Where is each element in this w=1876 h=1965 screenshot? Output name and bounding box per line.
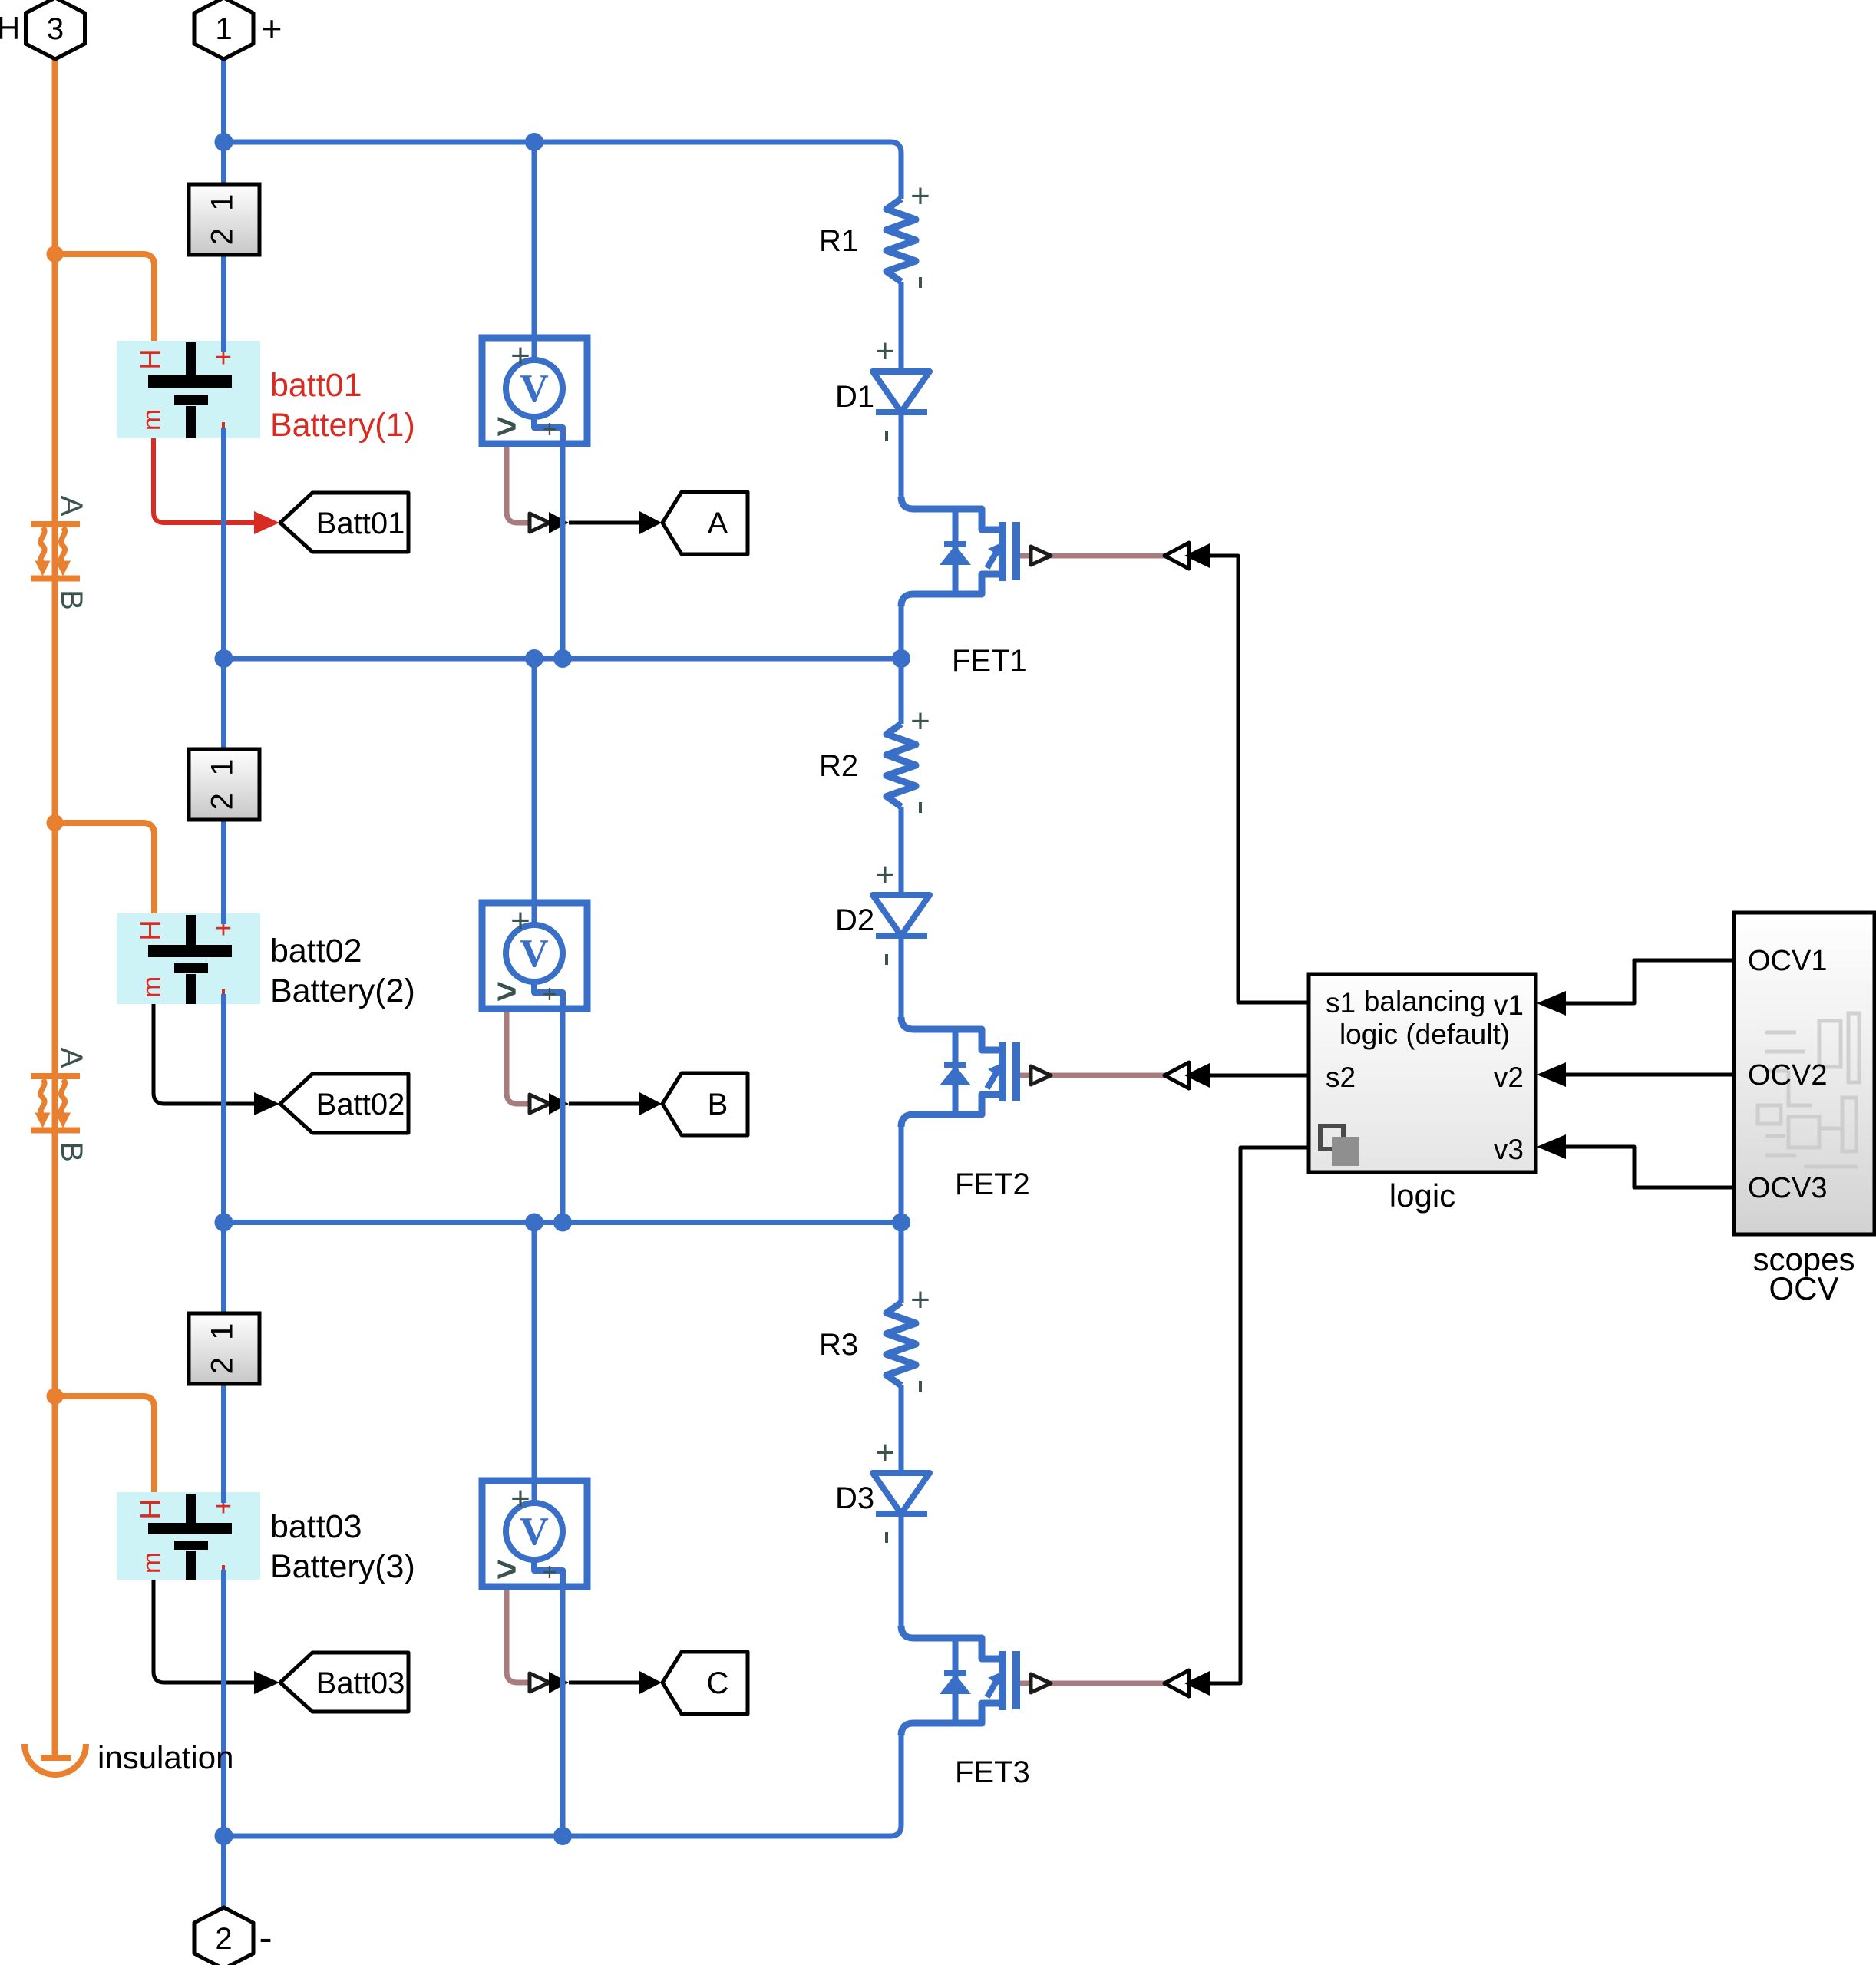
wire sensor feed 3 [532, 1223, 537, 1504]
svg-text:m: m [137, 976, 167, 998]
transistor FET1 source wire [901, 574, 999, 606]
transistor FET3 gate bar [1012, 1651, 1020, 1709]
voltage sensor V3 circle [506, 1503, 563, 1560]
tag B [662, 1073, 748, 1135]
wire R3 to D3 [899, 1385, 904, 1473]
junction rail3/sensor2 out [553, 1214, 572, 1232]
wire sensor 2 output to rail 3 [560, 1009, 566, 1223]
svg-text:B: B [54, 1141, 88, 1162]
svg-text:A: A [54, 496, 88, 517]
junction bus/rail3 [215, 1214, 233, 1232]
arrowhead after converter row A [549, 512, 569, 533]
svg-text:+: + [875, 1434, 895, 1471]
orange junction battery 3 [47, 1388, 64, 1405]
svg-text:v3: v3 [1494, 1134, 1524, 1165]
svg-text:2 1: 2 1 [206, 759, 239, 811]
svg-text:Battery(2): Battery(2) [270, 973, 415, 1009]
svg-text:A: A [54, 1048, 88, 1068]
wire battery2 m to Batt02 tag [154, 1004, 254, 1104]
wire rail 2 [224, 656, 902, 662]
svg-text:+: + [510, 1480, 530, 1518]
svg-text:logic (default): logic (default) [1339, 1019, 1510, 1050]
transistor FET2 channel bar [999, 1042, 1006, 1101]
svg-text:H: H [135, 1498, 167, 1519]
tag Batt03 [280, 1653, 408, 1712]
scope watermark [1758, 1013, 1859, 1167]
svg-text:2: 2 [215, 1922, 232, 1956]
svg-text:+: + [262, 8, 282, 48]
junction bus/rail2 [215, 649, 233, 668]
converter icon row A [530, 514, 550, 532]
battery batt01 block [117, 341, 260, 438]
hollow port triangle FET2 gate [1164, 1062, 1189, 1088]
svg-text:+: + [510, 337, 530, 375]
wire sensor feed 1 [532, 142, 537, 361]
arrowhead into FET1 gate [1184, 543, 1210, 568]
svg-text:v2: v2 [1494, 1062, 1524, 1093]
svg-text:logic: logic [1389, 1177, 1455, 1214]
arrowhead into B tag [639, 1092, 662, 1115]
wire FET1 source to rail 2 [899, 606, 904, 659]
battery batt01 plates symbol [148, 342, 232, 438]
svg-text:A: A [708, 507, 728, 540]
tag A [662, 492, 748, 554]
svg-text:FET1: FET1 [952, 644, 1027, 678]
svg-text:+: + [910, 702, 930, 740]
svg-text:batt01: batt01 [270, 367, 362, 404]
diode D2 [873, 895, 930, 936]
svg-text:Batt03: Batt03 [316, 1666, 405, 1700]
battery batt01 pin label - [222, 422, 225, 430]
svg-text:+: + [543, 980, 557, 1008]
transistor FET1 channel bar [999, 522, 1006, 581]
arrowhead into C tag [639, 1671, 662, 1694]
svg-text:R2: R2 [819, 749, 858, 783]
svg-text:B: B [708, 1088, 728, 1121]
voltage sensor V3 box [482, 1481, 587, 1587]
connection block 2 1 (#1) [189, 184, 259, 255]
svg-text:H: H [135, 920, 167, 940]
transistor FET1 channel arrow [987, 550, 998, 568]
resistor R2 [887, 724, 916, 807]
wire sensor 3 output to rail 4 [560, 1587, 566, 1836]
svg-text:Battery(1): Battery(1) [270, 407, 415, 444]
svg-text:>: > [497, 406, 517, 446]
wire logic s1 to FET1 gate [1210, 556, 1307, 1002]
voltage sensor V3 internal output wire [534, 1560, 563, 1587]
wire OCV1 to v1 [1566, 960, 1734, 1003]
thermal element #2 wavy conductor [61, 1079, 64, 1115]
svg-text:OCV: OCV [1769, 1270, 1838, 1306]
arrowhead into Batt03 tag [254, 1671, 279, 1694]
connection block 2 1 (#2) [189, 749, 259, 820]
wire rail 3 [224, 1220, 902, 1225]
transistor FET3 body diode [944, 1670, 966, 1676]
wire FET3 gate (mauve) [1019, 1681, 1166, 1686]
svg-text:D1: D1 [835, 380, 874, 414]
svg-text:+: + [875, 856, 895, 893]
junction rail2/FET1-R2 [892, 649, 910, 668]
svg-text:m: m [137, 409, 167, 431]
converter icon row C [530, 1673, 550, 1692]
transistor FET2 body diode [944, 1062, 966, 1068]
svg-text:m: m [137, 1552, 167, 1574]
svg-text:Batt02: Batt02 [316, 1088, 405, 1121]
svg-text:C: C [707, 1666, 729, 1700]
arrowhead after converter row C [549, 1672, 569, 1693]
svg-text:insulation: insulation [97, 1739, 233, 1775]
wire FET1 gate (mauve) [1019, 553, 1166, 559]
svg-text:H: H [0, 10, 20, 46]
voltage sensor V1 circle [506, 360, 563, 417]
svg-text:Battery(3): Battery(3) [270, 1548, 415, 1585]
svg-text:Batt01: Batt01 [316, 507, 405, 540]
svg-text:balancing: balancing [1364, 986, 1485, 1017]
wire OCV2 to v2 [1566, 1073, 1734, 1077]
tag Batt01 [280, 493, 408, 552]
junction rail1/sensor1 [525, 133, 543, 151]
junction rail2/sensor1 out [553, 649, 572, 668]
scopes OCV block [1734, 913, 1874, 1234]
wire sensor output row B (mauve) [507, 1009, 530, 1104]
thermal element #2 top bar [31, 1073, 80, 1079]
wire orange branch to battery 3 H [55, 1396, 155, 1492]
diode D2 polarity - [885, 954, 888, 965]
transistor FET1 body branch [953, 509, 959, 594]
svg-text:FET3: FET3 [955, 1755, 1030, 1789]
arrowhead into Batt02 tag [254, 1092, 279, 1115]
battery batt02 block [117, 913, 260, 1004]
svg-text:s2: s2 [1326, 1062, 1356, 1093]
transistor FET3 body branch [953, 1638, 959, 1723]
wire D3 to FET3 [899, 1514, 904, 1626]
transistor FET3 channel arrow [987, 1679, 998, 1697]
port 1 hexagon [194, 0, 253, 59]
junction rail4/sensor3 out [553, 1827, 572, 1845]
logic block subsystem icon [1320, 1126, 1343, 1149]
wire R1 to D1 [899, 282, 904, 372]
diode D3 polarity - [885, 1532, 888, 1543]
wire sensor output row C (mauve) [507, 1587, 530, 1683]
transistor FET3 source wire [901, 1703, 999, 1735]
wire FET2 source to rail 3 [899, 1127, 904, 1223]
wire main bus from port 1 down to port 2 [221, 59, 226, 1907]
voltage sensor V2 box [482, 903, 587, 1009]
arrowhead into v3 [1537, 1134, 1566, 1159]
wire sensor output row A (mauve) [507, 444, 530, 523]
svg-text:+: + [543, 415, 557, 443]
junction bus/rail4 [215, 1827, 233, 1845]
junction bus/rail1 [215, 133, 233, 151]
battery batt02 pin label - [222, 989, 225, 997]
blue stub battery1 - [221, 428, 226, 438]
svg-text:1: 1 [215, 12, 232, 46]
wire FET2 gate (mauve) [1019, 1073, 1166, 1078]
arrowhead into FET3 gate [1184, 1671, 1210, 1696]
transistor FET2 gate bar [1012, 1042, 1020, 1101]
svg-text:+: + [910, 177, 930, 215]
svg-text:v1: v1 [1494, 989, 1524, 1021]
svg-text:2 1: 2 1 [206, 1323, 239, 1375]
diode D3 [873, 1473, 930, 1514]
converter icon FET1 gate [1031, 547, 1051, 565]
svg-text:R1: R1 [819, 224, 858, 258]
svg-text:OCV1: OCV1 [1748, 945, 1827, 977]
resistor R3 [887, 1303, 916, 1385]
orange junction battery 1 [47, 246, 64, 263]
wire orange branch to battery 1 H [55, 254, 155, 341]
svg-text:2 1: 2 1 [206, 194, 239, 246]
wire rail 4 (bottom) from FET3 source to bus [224, 1735, 902, 1836]
resistor R2 polarity - [919, 802, 922, 813]
svg-text:B: B [54, 589, 88, 610]
wire orange thermal bus from port 3 [52, 59, 58, 1758]
thermal element #1 wavy conductor [41, 527, 45, 563]
svg-text:D2: D2 [835, 903, 874, 937]
port 2 hexagon [194, 1907, 253, 1965]
arrowhead into FET2 gate [1184, 1063, 1210, 1088]
wire to B tag [569, 1102, 639, 1106]
transistor FET2 channel arrow [987, 1070, 998, 1088]
wire sensor 1 output to rail 2 [560, 444, 566, 659]
svg-text:FET2: FET2 [955, 1167, 1030, 1201]
voltage sensor V2 circle [506, 925, 563, 982]
wire battery1 m to Batt01 tag (red) [154, 438, 254, 523]
svg-text:3: 3 [47, 12, 64, 46]
thermal element #1 wavy conductor [61, 527, 64, 563]
wire to C tag [569, 1681, 639, 1685]
converter icon FET3 gate [1031, 1674, 1051, 1693]
port 3 hexagon [26, 0, 85, 59]
wire D2 to FET2 [899, 936, 904, 1017]
arrowhead after converter row B [549, 1093, 569, 1115]
converter icon row B [530, 1095, 550, 1113]
resistor R1 polarity - [919, 277, 922, 288]
transistor FET1 drain wire [901, 497, 999, 530]
arrowhead into v1 [1537, 991, 1566, 1016]
voltage sensor V1 box [482, 338, 587, 444]
transistor FET2 drain wire [901, 1017, 999, 1050]
junction rail2/sensor2 feed [525, 649, 543, 668]
battery batt03 block [117, 1492, 260, 1580]
svg-text:+: + [875, 332, 895, 370]
converter icon FET2 gate [1031, 1066, 1051, 1085]
wire R2 to D2 [899, 807, 904, 895]
svg-text:D3: D3 [835, 1481, 874, 1515]
transistor FET2 body branch [953, 1029, 959, 1115]
balancing logic block [1309, 974, 1536, 1172]
ground insulation symbol [41, 1755, 71, 1761]
battery batt02 plates symbol [148, 915, 232, 1004]
svg-text:OCV2: OCV2 [1748, 1059, 1827, 1091]
svg-text:OCV3: OCV3 [1748, 1172, 1827, 1204]
wire logic s3 to FET3 gate [1210, 1148, 1307, 1683]
junction rail3/FET2-R3 [892, 1214, 910, 1232]
orange junction battery 2 [47, 814, 64, 831]
voltage sensor V2 internal output wire [534, 982, 563, 1009]
transistor FET1 gate bar [1012, 522, 1020, 580]
voltage sensor V1 internal output wire [534, 417, 563, 444]
transistor FET1 body diode [944, 541, 966, 547]
wire orange branch to battery 2 H [55, 823, 155, 913]
arrowhead into Batt01 tag [254, 511, 279, 534]
resistor R3 polarity - [919, 1381, 922, 1392]
connection block 2 1 (#3) [189, 1313, 259, 1384]
wire rail 2 to R2 [899, 659, 904, 724]
svg-text:H: H [135, 348, 167, 369]
battery batt03 pin label - [222, 1565, 225, 1573]
thermal element #2 wavy conductor [41, 1079, 45, 1115]
blue stub battery2 + [221, 913, 226, 924]
svg-text:+: + [910, 1281, 930, 1319]
wire sensor feed 2 [532, 659, 537, 926]
wire logic s2 to FET2 gate [1210, 1074, 1307, 1078]
thermal element #1 top bar [31, 521, 80, 527]
svg-text:+: + [543, 1558, 557, 1586]
tag Batt02 [280, 1074, 408, 1133]
wire rail 3 to R3 [899, 1223, 904, 1303]
transistor FET2 source wire [901, 1095, 999, 1127]
hollow port triangle FET3 gate [1164, 1670, 1189, 1696]
thermal element #2 bottom bar [31, 1128, 80, 1134]
wire battery3 m to Batt03 tag [154, 1580, 254, 1683]
hollow port triangle FET1 gate [1164, 543, 1189, 569]
svg-text:s1: s1 [1326, 987, 1356, 1019]
resistor R1 [887, 199, 916, 282]
svg-text:batt03: batt03 [270, 1508, 362, 1545]
transistor FET3 drain wire [901, 1626, 999, 1659]
svg-text:>: > [497, 1549, 517, 1589]
wire to A tag [569, 521, 639, 525]
thermal element #1 bottom bar [31, 576, 80, 582]
blue stub battery1 + [221, 341, 226, 352]
battery batt03 plates symbol [148, 1494, 232, 1580]
arrowhead into A tag [639, 511, 662, 534]
diode D1 [873, 372, 930, 412]
svg-text:>: > [497, 971, 517, 1011]
diode D1 polarity - [885, 431, 888, 441]
arrowhead into v2 [1537, 1062, 1566, 1087]
svg-text:batt02: batt02 [270, 933, 362, 969]
svg-text:-: - [259, 1916, 272, 1960]
transistor FET3 channel bar [999, 1651, 1006, 1710]
svg-text:+: + [510, 902, 530, 940]
wire OCV3 to v3 [1566, 1147, 1734, 1187]
blue stub battery3 + [221, 1492, 226, 1503]
svg-text:R3: R3 [819, 1328, 858, 1362]
blue stub battery3 - [221, 1570, 226, 1580]
blue stub battery2 - [221, 994, 226, 1004]
tag C [662, 1652, 748, 1714]
wire rail 1 (top) from bus to R1 [224, 142, 902, 199]
junction rail3/sensor3 feed [525, 1214, 543, 1232]
wire D1 to FET1 [899, 412, 904, 497]
